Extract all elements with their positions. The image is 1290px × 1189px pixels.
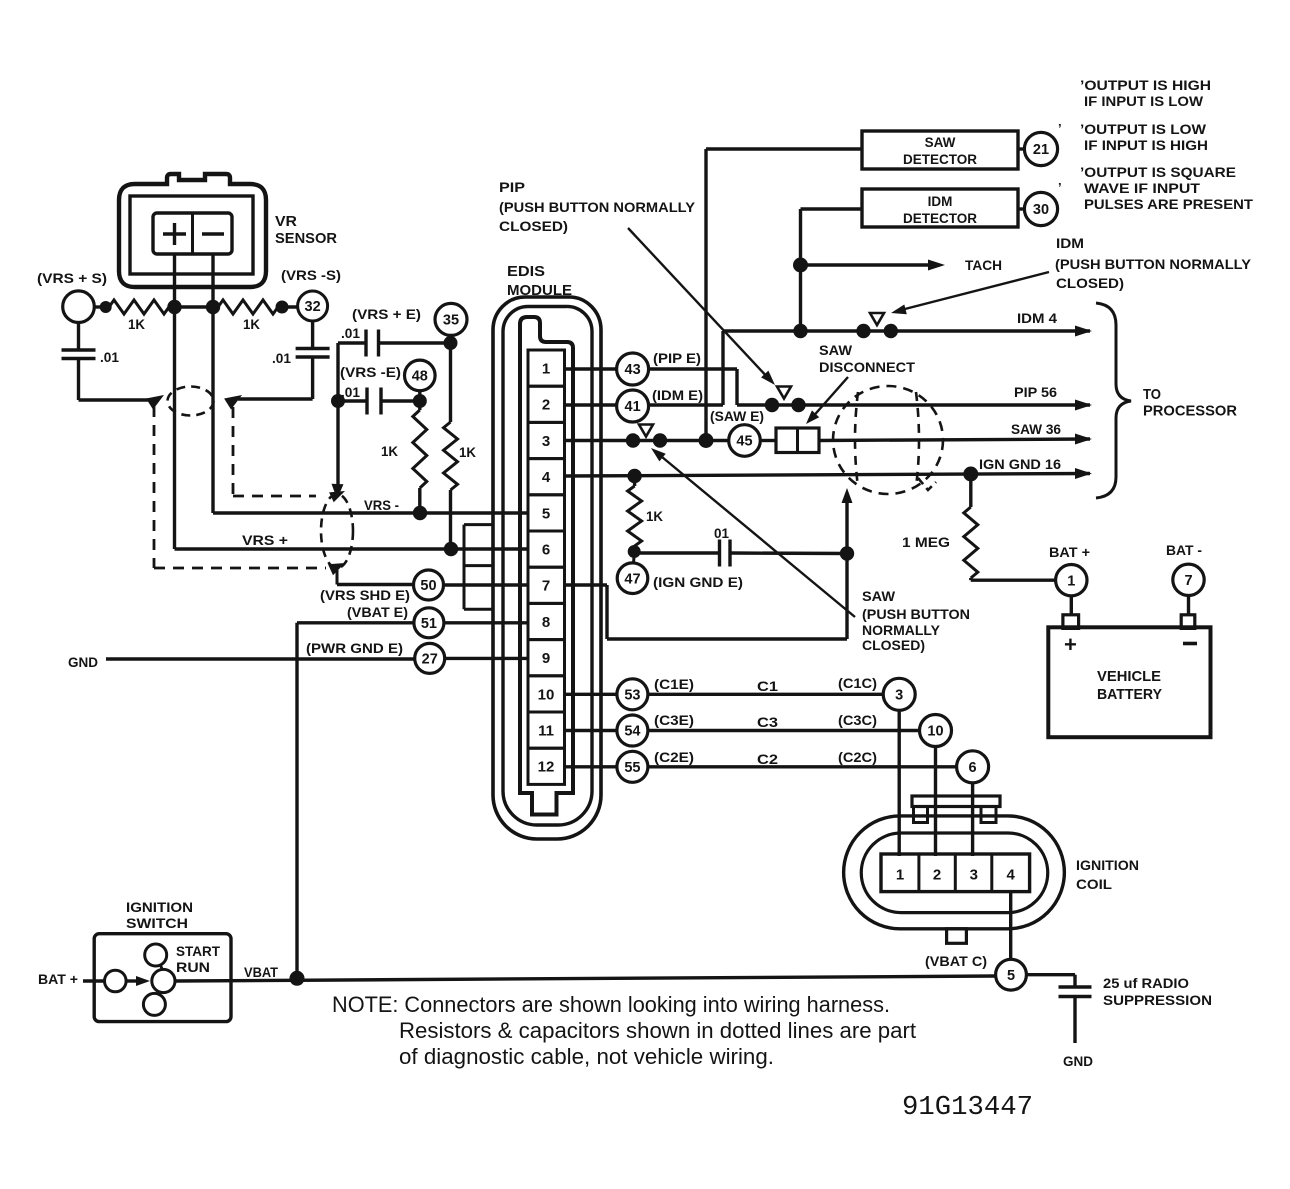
svg-text:’OUTPUT IS HIGH: ’OUTPUT IS HIGH — [1080, 77, 1211, 93]
svg-text:BATTERY: BATTERY — [1097, 686, 1162, 703]
svg-text:7: 7 — [542, 578, 550, 595]
svg-text:.01: .01 — [341, 326, 360, 341]
svg-text:54: 54 — [624, 724, 640, 740]
svg-text:4: 4 — [1007, 867, 1016, 884]
svg-text:SENSOR: SENSOR — [275, 230, 337, 247]
svg-text:’OUTPUT IS SQUARE: ’OUTPUT IS SQUARE — [1080, 164, 1236, 180]
svg-text:RUN: RUN — [176, 959, 210, 975]
svg-text:DISCONNECT: DISCONNECT — [819, 359, 915, 375]
svg-text:IGN GND 16: IGN GND 16 — [979, 456, 1061, 472]
svg-text:(PWR GND E): (PWR GND E) — [306, 640, 403, 656]
svg-text:32: 32 — [305, 299, 321, 315]
svg-text:11: 11 — [538, 723, 554, 740]
svg-text:25 uf RADIO: 25 uf RADIO — [1103, 975, 1189, 991]
svg-text:PROCESSOR: PROCESSOR — [1143, 403, 1237, 420]
svg-text:’: ’ — [1058, 180, 1062, 195]
svg-text:51: 51 — [421, 616, 437, 632]
svg-text:(PIP E): (PIP E) — [653, 350, 701, 366]
svg-text:(PUSH BUTTON NORMALLY: (PUSH BUTTON NORMALLY — [1055, 256, 1252, 272]
svg-text:CLOSED): CLOSED) — [499, 218, 568, 234]
svg-text:NORMALLY: NORMALLY — [862, 622, 941, 638]
svg-text:TACH: TACH — [965, 257, 1002, 273]
svg-text:VRS -: VRS - — [364, 497, 399, 513]
svg-text:EDIS: EDIS — [507, 263, 545, 280]
svg-text:+: + — [1064, 632, 1077, 657]
svg-text:C2: C2 — [757, 751, 778, 767]
svg-text:35: 35 — [443, 313, 459, 329]
svg-text:53: 53 — [624, 688, 640, 704]
svg-text:(VRS + E): (VRS + E) — [352, 306, 421, 322]
svg-text:SUPPRESSION: SUPPRESSION — [1103, 992, 1212, 1008]
svg-text:SAW: SAW — [862, 588, 896, 604]
svg-text:(VRS -E): (VRS -E) — [340, 364, 401, 380]
svg-text:(VBAT C): (VBAT C) — [925, 953, 987, 969]
svg-text:C3: C3 — [757, 714, 778, 730]
svg-text:3: 3 — [542, 433, 550, 450]
svg-text:CLOSED): CLOSED) — [1056, 275, 1124, 291]
svg-text:(VBAT E): (VBAT E) — [347, 604, 408, 620]
svg-text:41: 41 — [625, 399, 641, 415]
svg-text:3: 3 — [895, 688, 903, 704]
svg-text:3: 3 — [970, 867, 978, 884]
svg-text:CLOSED): CLOSED) — [862, 637, 925, 653]
svg-text:1: 1 — [896, 867, 904, 884]
svg-text:IDM: IDM — [1056, 235, 1084, 251]
svg-text:Resistors & capacitors shown i: Resistors & capacitors shown in dotted l… — [399, 1018, 916, 1043]
svg-text:1K: 1K — [128, 317, 145, 332]
svg-text:50: 50 — [420, 578, 436, 594]
svg-text:1 MEG: 1 MEG — [902, 534, 950, 550]
svg-text:PULSES ARE PRESENT: PULSES ARE PRESENT — [1084, 196, 1253, 212]
svg-text:IF INPUT IS HIGH: IF INPUT IS HIGH — [1084, 137, 1208, 153]
svg-text:(IGN GND E): (IGN GND E) — [653, 574, 743, 590]
svg-text:SWITCH: SWITCH — [126, 915, 188, 931]
svg-text:GND: GND — [1063, 1053, 1093, 1069]
svg-text:IGNITION: IGNITION — [1076, 857, 1139, 873]
svg-text:(C1E): (C1E) — [654, 676, 694, 692]
svg-text:IGNITION: IGNITION — [126, 899, 193, 915]
svg-text:5: 5 — [1007, 968, 1015, 984]
svg-text:SAW: SAW — [925, 135, 956, 150]
svg-text:1K: 1K — [646, 509, 663, 524]
svg-text:’OUTPUT IS LOW: ’OUTPUT IS LOW — [1080, 121, 1207, 137]
svg-text:4: 4 — [542, 469, 551, 486]
svg-text:DETECTOR: DETECTOR — [903, 211, 977, 226]
svg-text:(VRS + S): (VRS + S) — [37, 270, 107, 286]
svg-text:(C3C): (C3C) — [838, 712, 877, 728]
svg-text:(C2E): (C2E) — [654, 749, 694, 765]
svg-text:30: 30 — [1033, 202, 1049, 218]
svg-text:NOTE: Connectors are shown loo: NOTE: Connectors are shown looking into … — [332, 992, 890, 1017]
svg-text:(C3E): (C3E) — [654, 712, 694, 728]
svg-text:6: 6 — [542, 542, 550, 559]
svg-text:GND: GND — [68, 654, 98, 670]
svg-text:5: 5 — [542, 505, 550, 522]
svg-text:(VRS SHD E): (VRS SHD E) — [320, 587, 410, 603]
svg-text:(IDM E): (IDM E) — [652, 387, 703, 403]
svg-text:(C2C): (C2C) — [838, 749, 877, 765]
svg-text:VEHICLE: VEHICLE — [1097, 668, 1161, 685]
svg-text:.01: .01 — [272, 351, 291, 366]
svg-text:8: 8 — [542, 614, 550, 631]
svg-text:10: 10 — [927, 724, 943, 740]
svg-text:BAT +: BAT + — [1049, 545, 1090, 560]
svg-text:BAT +: BAT + — [38, 972, 78, 987]
svg-text:21: 21 — [1033, 142, 1049, 158]
svg-text:1: 1 — [542, 361, 550, 378]
svg-text:6: 6 — [969, 760, 977, 776]
svg-text:2: 2 — [933, 867, 941, 884]
svg-text:1K: 1K — [243, 317, 260, 332]
svg-text:48: 48 — [412, 369, 428, 385]
svg-text:SAW 36: SAW 36 — [1011, 421, 1061, 437]
svg-text:1K: 1K — [381, 444, 398, 459]
svg-text:IDM: IDM — [928, 194, 953, 209]
svg-text:VBAT: VBAT — [244, 964, 278, 980]
svg-text:.01: .01 — [100, 350, 119, 365]
svg-text:91G13447: 91G13447 — [902, 1093, 1033, 1123]
svg-text:9: 9 — [542, 650, 550, 667]
svg-text:(PUSH BUTTON: (PUSH BUTTON — [862, 606, 970, 622]
svg-text:PIP 56: PIP 56 — [1014, 384, 1057, 400]
svg-text:27: 27 — [422, 652, 438, 668]
svg-text:DETECTOR: DETECTOR — [903, 152, 977, 167]
svg-text:(VRS -S): (VRS -S) — [281, 267, 341, 283]
svg-text:10: 10 — [538, 686, 555, 703]
svg-text:IDM 4: IDM 4 — [1017, 310, 1057, 326]
svg-text:SAW: SAW — [819, 342, 853, 358]
svg-text:C1: C1 — [757, 678, 778, 694]
svg-text:(SAW E): (SAW E) — [710, 408, 764, 424]
svg-text:01: 01 — [714, 526, 729, 541]
svg-text:12: 12 — [538, 759, 555, 776]
svg-text:VRS +: VRS + — [242, 532, 288, 548]
svg-text:47: 47 — [624, 571, 640, 587]
svg-text:55: 55 — [624, 760, 640, 776]
svg-text:VR: VR — [275, 213, 297, 230]
svg-text:7: 7 — [1184, 573, 1192, 589]
svg-text:COIL: COIL — [1076, 876, 1112, 892]
svg-text:45: 45 — [736, 434, 752, 450]
svg-text:’: ’ — [1058, 121, 1062, 136]
svg-text:(PUSH BUTTON NORMALLY: (PUSH BUTTON NORMALLY — [499, 199, 696, 215]
svg-text:IF INPUT IS LOW: IF INPUT IS LOW — [1084, 93, 1204, 109]
svg-text:START: START — [176, 943, 220, 959]
svg-text:TO: TO — [1143, 386, 1161, 403]
svg-text:1: 1 — [1067, 573, 1075, 589]
svg-text:1K: 1K — [459, 445, 476, 460]
svg-text:of diagnostic cable, not vehic: of diagnostic cable, not vehicle wiring. — [399, 1044, 774, 1069]
svg-text:BAT -: BAT - — [1166, 543, 1202, 558]
svg-text:(C1C): (C1C) — [838, 675, 877, 691]
svg-text:2: 2 — [542, 397, 550, 414]
svg-text:43: 43 — [625, 362, 641, 378]
svg-text:WAVE IF INPUT: WAVE IF INPUT — [1084, 180, 1200, 196]
svg-text:PIP: PIP — [499, 179, 525, 195]
